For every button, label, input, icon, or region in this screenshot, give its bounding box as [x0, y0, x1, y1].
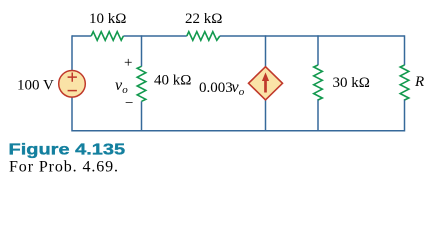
wire dependent source branch upper [265, 35, 267, 67]
svg-text:−: − [125, 96, 133, 112]
label 10 kOhm [89, 11, 126, 27]
wire top left segment [72, 35, 91, 37]
label 30 kOhm [333, 75, 370, 91]
svg-text:30 kΩ: 30 kΩ [333, 75, 370, 91]
svg-text:o: o [239, 86, 245, 98]
resistor 22 kOhm zigzag [187, 32, 220, 41]
wire 40k branch upper [141, 35, 143, 66]
resistor 30 kOhm zigzag vertical [314, 65, 323, 100]
resistor R zigzag vertical [400, 65, 409, 100]
svg-text:For Prob. 4.69.: For Prob. 4.69. [9, 159, 119, 176]
voltage source 100 V [59, 71, 86, 98]
svg-text:+: + [124, 55, 132, 71]
resistor 40 kOhm zigzag vertical [137, 66, 146, 101]
wire dependent source branch lower [265, 100, 267, 132]
wire 30k branch lower [317, 99, 319, 131]
wire R branch upper [404, 35, 406, 65]
svg-text:Figure 4.135: Figure 4.135 [9, 141, 126, 158]
label 100 V [17, 78, 54, 94]
svg-text:R: R [414, 74, 424, 90]
label 22 kOhm [185, 11, 222, 27]
caption For Prob. 4.69. [9, 159, 119, 176]
wire bottom [72, 130, 405, 132]
wire 40k branch lower [141, 101, 143, 131]
label R [414, 74, 424, 90]
resistor 10 kOhm zigzag [91, 32, 123, 41]
svg-text:o: o [122, 84, 128, 96]
label 40 kOhm [154, 73, 191, 89]
svg-text:40 kΩ: 40 kΩ [154, 73, 191, 89]
label vo with polarity [115, 55, 133, 112]
svg-text:10 kΩ: 10 kΩ [89, 11, 126, 27]
wire top middle segment [123, 35, 186, 37]
svg-text:0.003: 0.003 [199, 80, 233, 96]
wire 30k branch upper [317, 35, 319, 65]
caption Figure 4.135 [9, 141, 126, 158]
dependent current source 0.003vo [249, 67, 283, 100]
svg-text:22 kΩ: 22 kΩ [185, 11, 222, 27]
wire left vertical upper [71, 35, 73, 71]
wire R branch lower [404, 99, 406, 131]
svg-text:100 V: 100 V [17, 78, 54, 94]
wire top right segment [220, 35, 405, 37]
wire left vertical lower [71, 97, 73, 132]
label 0.003vo [199, 79, 245, 98]
